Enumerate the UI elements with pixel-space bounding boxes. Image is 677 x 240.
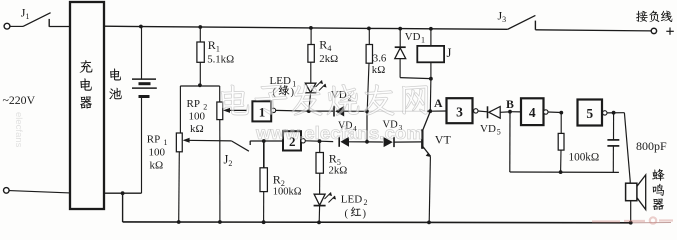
watermark center CJK bbox=[221, 85, 249, 115]
svg-text:1: 1 bbox=[421, 36, 425, 45]
svg-text:kΩ: kΩ bbox=[190, 123, 204, 135]
block U2 bbox=[283, 131, 301, 150]
svg-text:5.1kΩ: 5.1kΩ bbox=[207, 54, 234, 66]
svg-text:RP: RP bbox=[147, 134, 160, 146]
svg-text:3.6: 3.6 bbox=[373, 53, 387, 65]
capacitor 800pF bbox=[612, 111, 616, 115]
wire bbox=[510, 111, 521, 113]
svg-text:VT: VT bbox=[435, 133, 452, 147]
svg-text:(: ( bbox=[345, 209, 349, 220]
wire bbox=[305, 140, 319, 142]
switch J1 bbox=[23, 13, 51, 27]
switch J2 bbox=[231, 141, 249, 151]
svg-text:VD: VD bbox=[405, 31, 421, 43]
diode VD1 bbox=[398, 27, 402, 31]
RP2 wiper bbox=[225, 109, 247, 111]
LED2 red bbox=[314, 194, 325, 205]
resistor R1 5.1k bbox=[198, 25, 202, 29]
junction bbox=[218, 220, 222, 224]
LED1 green bbox=[305, 83, 316, 92]
svg-text:kΩ: kΩ bbox=[150, 160, 164, 172]
wire bbox=[10, 25, 23, 27]
wire: bottom ground bus bbox=[123, 221, 631, 224]
svg-text:100kΩ: 100kΩ bbox=[569, 152, 600, 164]
block U1 bbox=[252, 101, 271, 121]
junction bbox=[427, 221, 431, 225]
wire: B feedback loop bbox=[509, 112, 511, 172]
block U4 bbox=[521, 98, 544, 125]
switch J3 bbox=[508, 15, 536, 29]
terminal: AC input top bbox=[4, 23, 10, 29]
resistor R5 2k bbox=[318, 139, 322, 143]
RP1 wiper bbox=[185, 139, 232, 142]
diode VD5 bbox=[478, 110, 488, 113]
svg-text:A: A bbox=[434, 96, 443, 110]
svg-text:www.elecfans.com: www.elecfans.com bbox=[255, 123, 423, 143]
relay coil J bbox=[429, 27, 433, 31]
wire: down to ground bus bbox=[122, 193, 124, 222]
svg-text:LED: LED bbox=[341, 194, 362, 206]
svg-text:800pF: 800pF bbox=[636, 139, 667, 153]
buzzer 蜂鸣器 bbox=[624, 113, 630, 184]
svg-text:kΩ: kΩ bbox=[372, 64, 385, 76]
svg-text:100kΩ: 100kΩ bbox=[273, 187, 302, 198]
battery 电池 bbox=[139, 25, 143, 29]
transistor VT bbox=[423, 112, 430, 130]
watermark bottom right red bbox=[592, 217, 673, 223]
junction bbox=[262, 220, 266, 224]
wire bbox=[430, 110, 446, 112]
node B bbox=[508, 110, 512, 114]
block U3 bbox=[447, 98, 473, 123]
label 接负线 bbox=[636, 11, 648, 22]
svg-text:LED: LED bbox=[270, 75, 291, 87]
svg-text:4: 4 bbox=[529, 105, 536, 120]
wire bbox=[9, 191, 70, 193]
svg-text:): ) bbox=[291, 87, 295, 98]
node A bbox=[428, 109, 432, 113]
svg-text:VD: VD bbox=[480, 123, 496, 135]
wire bbox=[276, 109, 309, 112]
diode VD3 bbox=[384, 137, 393, 147]
svg-text:RP: RP bbox=[187, 98, 200, 110]
svg-text:100: 100 bbox=[149, 147, 166, 159]
potentiometer RP2 100k bbox=[217, 102, 223, 120]
svg-text:~220V: ~220V bbox=[3, 93, 36, 107]
junction bbox=[307, 109, 311, 113]
svg-text:3: 3 bbox=[456, 105, 463, 120]
svg-text:J: J bbox=[447, 46, 452, 60]
wire: to load terminal bbox=[535, 30, 651, 31]
svg-text:2kΩ: 2kΩ bbox=[329, 165, 348, 177]
svg-text:5: 5 bbox=[586, 106, 593, 121]
polarity mark + bbox=[666, 30, 674, 32]
junction bbox=[559, 170, 563, 174]
junction bbox=[429, 77, 433, 81]
potentiometer RP1 100k bbox=[176, 133, 182, 152]
svg-text:2kΩ: 2kΩ bbox=[319, 53, 338, 65]
block U5 bbox=[578, 100, 603, 126]
junction bbox=[365, 140, 369, 144]
diode VD4 bbox=[320, 140, 334, 142]
svg-text:B: B bbox=[506, 97, 514, 111]
svg-text:2: 2 bbox=[364, 198, 368, 207]
resistor R4 2k bbox=[309, 26, 313, 30]
resistor R2 100k bbox=[262, 139, 266, 143]
wire: charger to battery bottom bbox=[104, 192, 142, 194]
wire bbox=[367, 141, 383, 143]
resistor 3.6k bbox=[367, 27, 371, 31]
svg-text:100: 100 bbox=[189, 111, 206, 123]
diode VD2 bbox=[309, 110, 333, 112]
svg-text:): ) bbox=[363, 209, 367, 220]
junction bbox=[121, 191, 125, 195]
junction node 3.6k/VD2 bbox=[365, 109, 369, 113]
resistor 100k bbox=[559, 111, 563, 115]
junction bbox=[177, 220, 181, 224]
wire: faint under watermark bbox=[369, 110, 427, 112]
wire: top supply bus bbox=[104, 26, 508, 29]
wire bbox=[548, 111, 561, 114]
wire: R1 node to RP1/RP2 bbox=[180, 85, 219, 87]
wire: faded bus end bbox=[631, 222, 671, 224]
junction bbox=[317, 221, 321, 225]
charger block 充电器 bbox=[70, 2, 104, 209]
terminal: AC input bottom bbox=[4, 188, 10, 194]
wire bbox=[607, 112, 624, 114]
terminal: load output bbox=[651, 28, 656, 33]
svg-text:elecfans: elecfans bbox=[13, 112, 24, 148]
svg-text:1: 1 bbox=[259, 105, 266, 120]
svg-text:5: 5 bbox=[497, 128, 501, 137]
